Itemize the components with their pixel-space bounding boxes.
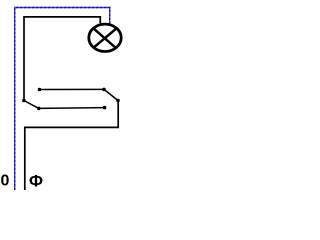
switch S2 blade (upper traveler to pole) xyxy=(104,89,118,100)
wire: neutral N (blue dashed) from node 0 up left side, across top, down to lamp xyxy=(15,8,110,191)
wire: lower traveler between S1 and S2 xyxy=(39,107,105,110)
node: S2 upper contact dot xyxy=(102,88,106,92)
svg-text:0: 0 xyxy=(1,173,10,190)
wire: phase riser from node Φ up, across bottom, up right side to S2 pole xyxy=(25,101,118,191)
node: S2 pole junction dot xyxy=(116,99,120,103)
switch S1 blade (pole to lower traveler) xyxy=(24,101,39,109)
wire: upper traveler between S1 and S2 xyxy=(40,88,105,90)
lamp EL1 (circle with X) xyxy=(89,24,121,51)
node: S1 pole junction dot xyxy=(22,99,26,103)
node: S1 upper contact dot xyxy=(38,88,42,92)
node: S2 lower contact dot xyxy=(103,106,107,110)
node: S1 lower contact dot xyxy=(37,107,41,111)
wire: lamp feed from switch S1 pole up left side, across top, down to lamp xyxy=(24,17,100,101)
svg-text:Φ: Φ xyxy=(29,171,43,190)
